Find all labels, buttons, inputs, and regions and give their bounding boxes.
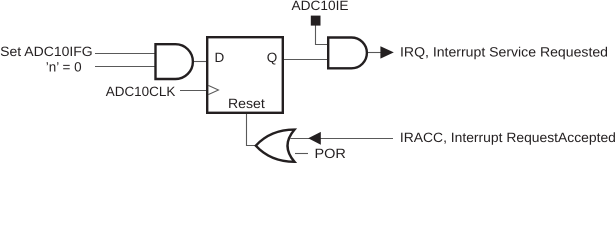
svg-text:Q: Q xyxy=(267,50,278,65)
svg-text:POR: POR xyxy=(315,146,347,161)
svg-text:IRACC, Interrupt RequestAccept: IRACC, Interrupt RequestAccepted xyxy=(400,130,616,145)
svg-text:Reset: Reset xyxy=(228,96,265,111)
svg-text:Set ADC10IFG: Set ADC10IFG xyxy=(0,44,93,59)
svg-text:’n’ = 0: ’n’ = 0 xyxy=(46,59,82,74)
svg-text:ADC10IE: ADC10IE xyxy=(292,0,349,13)
svg-text:D: D xyxy=(215,50,225,65)
svg-text:IRQ, Interrupt Service Request: IRQ, Interrupt Service Requested xyxy=(400,45,608,60)
svg-text:ADC10CLK: ADC10CLK xyxy=(106,84,176,99)
